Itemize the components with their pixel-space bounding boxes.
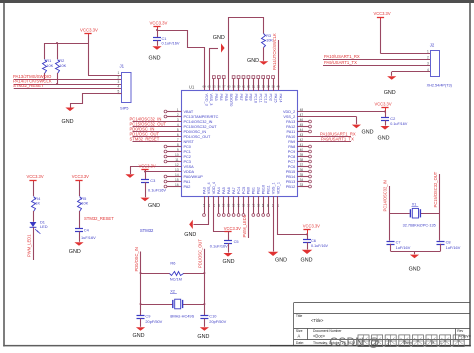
ground xyxy=(152,46,161,50)
pin 21 PA5 xyxy=(223,196,225,213)
svg-text:VCC3.3V: VCC3.3V xyxy=(80,27,98,32)
svg-text:53: 53 xyxy=(262,85,266,89)
pin 57 PB5 (NC) xyxy=(223,79,225,91)
svg-text:PA0/WKUP: PA0/WKUP xyxy=(184,175,204,179)
svg-text:GND: GND xyxy=(247,58,259,64)
pin 44 PA11 (NC) xyxy=(297,131,308,133)
svg-text:<Doc>: <Doc> xyxy=(313,334,326,339)
svg-text:GND: GND xyxy=(148,203,160,209)
svg-text:STM32_RESET: STM32_RESET xyxy=(13,83,44,88)
svg-text:Rev: Rev xyxy=(457,329,463,333)
pin 30 PB11 xyxy=(268,196,270,213)
wire xyxy=(385,120,387,125)
svg-text:10K: 10K xyxy=(81,201,88,206)
svg-text:35: 35 xyxy=(300,173,304,177)
svg-text:VDDA: VDDA xyxy=(184,170,195,174)
svg-text:PD2: PD2 xyxy=(268,94,272,101)
svg-text:PC2: PC2 xyxy=(184,155,191,159)
svg-text:VDD_1: VDD_1 xyxy=(276,182,280,194)
resistor R3 xyxy=(262,34,266,48)
svg-text:PB14: PB14 xyxy=(286,175,295,179)
pin 54 PD2 (NC) xyxy=(268,79,270,91)
svg-text:0.1uF/16V: 0.1uF/16V xyxy=(311,244,329,248)
pin 52 PC11 (NC) xyxy=(258,79,260,91)
svg-text:Title: Title xyxy=(296,314,303,318)
svg-text:Size: Size xyxy=(296,329,303,333)
svg-text:8MHz-HC49S: 8MHz-HC49S xyxy=(170,313,194,318)
svg-text:50: 50 xyxy=(272,85,276,89)
wire VDD_1 xyxy=(278,204,308,235)
ground xyxy=(189,220,193,229)
wire VSS_1 xyxy=(273,204,275,252)
svg-text:56: 56 xyxy=(217,85,221,89)
svg-text:0.1uF/16V: 0.1uF/16V xyxy=(210,243,228,248)
svg-text:52: 52 xyxy=(257,85,261,89)
pin 55 PB3 (NC) xyxy=(213,79,215,91)
capacitor C9 xyxy=(137,315,145,317)
pin 45 PA12 (NC) xyxy=(297,126,308,128)
wire xyxy=(414,251,416,254)
crystal X1 xyxy=(389,213,410,215)
svg-text:PB3: PB3 xyxy=(214,94,218,101)
capacitor C1 xyxy=(153,37,161,39)
svg-text:GND: GND xyxy=(409,267,421,273)
wire xyxy=(33,182,35,196)
svg-text:VCC3.3V: VCC3.3V xyxy=(374,11,391,16)
svg-text:C3: C3 xyxy=(150,178,155,183)
svg-text:A: A xyxy=(298,334,301,339)
net STM32_RESET xyxy=(14,88,122,90)
svg-text:<Rev>: <Rev> xyxy=(459,334,472,339)
svg-text:16: 16 xyxy=(175,183,179,187)
wire xyxy=(79,232,81,242)
ground xyxy=(136,327,145,331)
svg-text:58: 58 xyxy=(232,85,236,89)
pin 41 PA8 (NC) xyxy=(297,146,308,148)
svg-text:PA7: PA7 xyxy=(232,187,236,194)
ground xyxy=(380,126,389,130)
svg-text:PC4: PC4 xyxy=(237,187,241,194)
svg-text:37: 37 xyxy=(300,163,304,167)
svg-text:PA9/USART1_TX: PA9/USART1_TX xyxy=(321,136,354,141)
svg-text:GND: GND xyxy=(362,129,374,135)
wire xyxy=(79,182,81,196)
pin 8 PC0 (NC) xyxy=(167,146,182,148)
svg-text:PA10/USART1_RX: PA10/USART1_RX xyxy=(324,54,360,59)
wire xyxy=(157,40,159,45)
svg-text:PA14/JTCK/SWCLK: PA14/JTCK/SWCLK xyxy=(272,33,277,70)
pin 40 PC9 (NC) xyxy=(297,151,308,153)
svg-text:NRST: NRST xyxy=(184,140,195,144)
svg-text:0.1uF/16V: 0.1uF/16V xyxy=(162,41,180,46)
svg-text:PA8: PA8 xyxy=(288,145,295,149)
svg-text:C6: C6 xyxy=(311,238,316,243)
svg-text:10: 10 xyxy=(175,153,179,157)
svg-text:61: 61 xyxy=(242,85,246,89)
svg-text:39: 39 xyxy=(300,153,304,157)
svg-text:38: 38 xyxy=(300,158,304,162)
svg-text:PA13: PA13 xyxy=(286,120,295,124)
svg-text:32.768KHZ/PC-135: 32.768KHZ/PC-135 xyxy=(403,224,436,228)
net PA9/USART1_TX (J2) xyxy=(323,65,431,67)
svg-text:PA12: PA12 xyxy=(286,125,295,129)
svg-text:STM32: STM32 xyxy=(140,228,154,233)
svg-text:PD0/OSC_IN: PD0/OSC_IN xyxy=(184,130,207,134)
svg-text:GND: GND xyxy=(133,333,145,339)
svg-text:17: 17 xyxy=(202,204,206,208)
svg-text:9: 9 xyxy=(177,148,179,152)
pin 16 PA2 (NC) xyxy=(167,186,182,188)
pin 61 PB8 (NC) xyxy=(243,79,245,91)
capacitor C7 xyxy=(387,241,395,243)
svg-text:0.1uF/16V: 0.1uF/16V xyxy=(390,122,408,126)
svg-text:2: 2 xyxy=(427,56,429,60)
svg-text:PB15: PB15 xyxy=(286,170,295,174)
ground xyxy=(352,125,361,129)
svg-text:PA14: PA14 xyxy=(278,94,282,103)
wire xyxy=(390,244,392,251)
svg-text:STM32_RESET: STM32_RESET xyxy=(130,136,160,141)
svg-text:PC14/OSC32_IN: PC14/OSC32_IN xyxy=(382,180,387,211)
svg-text:PC0: PC0 xyxy=(184,145,191,149)
svg-text:Document Number: Document Number xyxy=(313,329,342,333)
svg-text:PA10: PA10 xyxy=(286,135,295,139)
ground xyxy=(223,253,232,257)
svg-text:<Title>: <Title> xyxy=(311,318,324,323)
svg-text:1uF/16V: 1uF/16V xyxy=(396,245,411,250)
svg-text:20pF/50V: 20pF/50V xyxy=(209,319,226,324)
svg-text:PD0/OSC_IN: PD0/OSC_IN xyxy=(134,247,139,271)
LED D1 xyxy=(30,222,37,227)
capacitor C8 xyxy=(437,241,445,243)
svg-text:GND: GND xyxy=(384,90,396,96)
svg-text:PD1/OSC_OUT: PD1/OSC_OUT xyxy=(198,239,203,268)
pin 38 PC7 (NC) xyxy=(297,161,308,163)
net PA9/USART1_TX (pin 42) xyxy=(297,141,351,143)
svg-text:41: 41 xyxy=(300,143,304,147)
svg-text:SIP5: SIP5 xyxy=(120,105,128,110)
svg-text:LED: LED xyxy=(40,224,48,229)
svg-text:PB9: PB9 xyxy=(249,94,253,101)
net PD0/OSC_IN xyxy=(133,131,182,133)
svg-text:VCC3.3V: VCC3.3V xyxy=(139,163,156,168)
svg-text:23: 23 xyxy=(232,204,236,208)
svg-text:63: 63 xyxy=(207,85,211,89)
svg-text:VSS_2: VSS_2 xyxy=(283,115,295,119)
svg-text:GND: GND xyxy=(378,135,390,141)
pin 11 PC3 (NC) xyxy=(167,161,182,163)
svg-text:2: 2 xyxy=(118,76,120,80)
wire xyxy=(392,71,431,73)
wire xyxy=(79,211,81,229)
svg-text:1: 1 xyxy=(177,108,179,112)
pin 20 PA4 xyxy=(218,196,220,213)
svg-text:1uF/16V: 1uF/16V xyxy=(446,245,461,250)
svg-text:PC14/OSC32_IN: PC14/OSC32_IN xyxy=(184,120,213,124)
svg-text:PWM_LED1: PWM_LED1 xyxy=(242,214,247,237)
wire xyxy=(44,73,46,80)
svg-text:PB11: PB11 xyxy=(266,185,270,194)
svg-text:R6: R6 xyxy=(170,260,175,265)
pin 22 PA6 xyxy=(228,196,230,213)
svg-text:C5: C5 xyxy=(234,239,239,244)
svg-text:10K: 10K xyxy=(59,63,66,68)
wire xyxy=(380,20,382,54)
svg-text:PC12: PC12 xyxy=(263,94,267,104)
svg-text:C4: C4 xyxy=(84,227,90,232)
svg-text:Date:: Date: xyxy=(296,341,304,345)
svg-text:J2: J2 xyxy=(430,42,435,47)
net PD0/OSC_IN (xtal) xyxy=(140,252,142,316)
svg-text:VCC3.3V: VCC3.3V xyxy=(150,20,168,25)
svg-text:VDD_2: VDD_2 xyxy=(283,110,295,114)
svg-text:VSS_4: VSS_4 xyxy=(207,182,211,194)
svg-text:51: 51 xyxy=(252,85,256,89)
svg-text:VCC3.3V: VCC3.3V xyxy=(375,101,392,106)
svg-text:64: 64 xyxy=(203,85,207,89)
svg-text:1K: 1K xyxy=(35,201,40,206)
capacitor C5 xyxy=(228,231,230,240)
svg-text:34: 34 xyxy=(300,178,304,182)
svg-text:0.1uF/16V: 0.1uF/16V xyxy=(148,187,166,192)
svg-text:15: 15 xyxy=(175,178,179,182)
pin 59 PB7 (NC) xyxy=(238,79,240,91)
net PA10/USART1_RX (pin 43) xyxy=(297,136,351,138)
svg-text:GND: GND xyxy=(184,232,196,238)
pin 35 PB14 (NC) xyxy=(297,176,308,178)
pin 15 PA1 (NC) xyxy=(167,181,182,183)
svg-text:46: 46 xyxy=(300,118,304,122)
svg-text:62: 62 xyxy=(247,85,251,89)
pin 53 PC12 (NC) xyxy=(263,79,265,91)
ground xyxy=(410,255,419,259)
pin 58 PB6 (NC) xyxy=(233,79,235,91)
capacitor C6 xyxy=(307,234,309,239)
svg-text:PA11: PA11 xyxy=(286,130,295,134)
svg-text:VSS_3: VSS_3 xyxy=(209,94,213,106)
svg-text:PC13/TAMPER/RTC: PC13/TAMPER/RTC xyxy=(184,115,219,119)
svg-text:57: 57 xyxy=(222,85,226,89)
svg-text:33: 33 xyxy=(300,183,304,187)
pin 32 VDD_1 xyxy=(277,196,279,203)
svg-text:PC1: PC1 xyxy=(184,150,191,154)
svg-text:60: 60 xyxy=(227,85,231,89)
pin 28 PB2 xyxy=(258,196,260,213)
resistor R6 xyxy=(141,273,170,275)
resistor R5 xyxy=(78,197,82,212)
svg-text:PC10: PC10 xyxy=(254,94,258,104)
pin 50 PA15 (NC) xyxy=(273,79,275,91)
wire xyxy=(145,182,147,197)
net PA14/JTCK/SWCLK xyxy=(14,84,122,86)
resistor R4 xyxy=(32,197,36,212)
wire xyxy=(307,242,309,249)
svg-text:PB1: PB1 xyxy=(252,187,256,194)
ground xyxy=(200,327,209,331)
svg-text:STM32_RESET: STM32_RESET xyxy=(84,216,114,221)
svg-text:GND: GND xyxy=(149,56,161,62)
svg-text:1uF/16V: 1uF/16V xyxy=(81,235,96,240)
svg-text:3: 3 xyxy=(118,80,120,84)
ground xyxy=(74,242,83,246)
pin 23 PA7 xyxy=(233,196,235,213)
wire BOOT0 xyxy=(229,18,264,93)
svg-text:PB13: PB13 xyxy=(286,180,295,184)
svg-text:27: 27 xyxy=(251,204,255,208)
svg-text:J1: J1 xyxy=(120,64,125,69)
net PC14/OSC32_IN (xtal) xyxy=(389,186,391,241)
ground xyxy=(65,108,74,112)
svg-text:PA15: PA15 xyxy=(273,94,277,103)
net PWM_LED1 (PB0) xyxy=(248,204,250,238)
pin 56 PB4 (NC) xyxy=(218,79,220,91)
svg-text:PB7: PB7 xyxy=(239,94,243,101)
wire VSS_2 xyxy=(297,116,356,118)
svg-text:VCC3.3V: VCC3.3V xyxy=(303,223,320,228)
svg-text:PB8: PB8 xyxy=(244,94,248,101)
svg-text:XH2.54/4P(T3): XH2.54/4P(T3) xyxy=(427,83,453,87)
svg-text:44: 44 xyxy=(300,128,304,132)
svg-text:29: 29 xyxy=(261,204,265,208)
svg-text:PA5: PA5 xyxy=(222,187,226,194)
svg-text:49: 49 xyxy=(277,85,281,89)
net PD1/OSC_OUT xyxy=(133,136,182,138)
connector J1 xyxy=(122,73,132,103)
pin 37 PC6 (NC) xyxy=(297,166,308,168)
svg-text:11: 11 xyxy=(175,158,179,162)
wire xyxy=(157,29,159,38)
svg-text:54: 54 xyxy=(267,85,271,89)
svg-text:X2: X2 xyxy=(170,289,175,294)
svg-text:BOOT0: BOOT0 xyxy=(229,94,233,107)
wire xyxy=(209,48,218,50)
net PA13/JTMS/SWDIO xyxy=(14,79,122,81)
svg-text:14: 14 xyxy=(175,173,179,177)
svg-text:PC11: PC11 xyxy=(259,94,263,103)
wire VSS_4 xyxy=(194,204,209,225)
pin 19 VDD_4 xyxy=(213,196,215,203)
svg-text:GND: GND xyxy=(275,257,287,263)
pin 51 PC10 (NC) xyxy=(253,79,255,91)
wire xyxy=(88,75,122,77)
svg-text:PB5: PB5 xyxy=(224,94,228,101)
svg-text:55: 55 xyxy=(212,85,216,89)
svg-text:VCC3.3V: VCC3.3V xyxy=(224,226,241,231)
net PA10/USART1_RX (J2) xyxy=(323,59,431,61)
svg-text:GND: GND xyxy=(197,334,209,340)
ground xyxy=(140,198,149,202)
pin 9 PC1 (NC) xyxy=(167,151,182,153)
ground xyxy=(268,252,279,256)
svg-text:PC7: PC7 xyxy=(288,160,295,164)
svg-text:PA6: PA6 xyxy=(227,187,231,194)
svg-text:VDD_4: VDD_4 xyxy=(212,182,216,194)
pin 27 PB1 xyxy=(253,196,255,213)
svg-text:VCC3.3V: VCC3.3V xyxy=(72,174,89,179)
svg-text:VSSA: VSSA xyxy=(184,165,195,169)
svg-text:PC5: PC5 xyxy=(242,187,246,194)
pin 29 PB10 xyxy=(263,196,265,213)
svg-text:1: 1 xyxy=(118,71,120,75)
wire xyxy=(88,35,90,75)
svg-text:2: 2 xyxy=(177,113,179,117)
ground xyxy=(387,76,396,80)
svg-text:VSS_1: VSS_1 xyxy=(271,182,275,194)
svg-text:PA9/USART1_TX: PA9/USART1_TX xyxy=(324,60,357,65)
svg-text:PC6: PC6 xyxy=(288,165,295,169)
svg-text:4: 4 xyxy=(427,68,429,72)
net PD1/OSC_OUT (xtal) xyxy=(204,249,206,316)
resistor R2 xyxy=(56,60,60,74)
svg-text:36: 36 xyxy=(300,168,304,172)
pin 24 PC4 xyxy=(238,196,240,213)
net STM32_RESET (NRST) xyxy=(133,141,182,143)
pin 31 VSS_1 xyxy=(273,196,275,203)
pin 62 PB9 (NC) xyxy=(248,79,250,91)
svg-text:PC9: PC9 xyxy=(288,150,295,154)
svg-text:VBAT: VBAT xyxy=(184,110,194,114)
svg-text:21: 21 xyxy=(222,204,226,208)
svg-text:PA9: PA9 xyxy=(288,140,295,144)
svg-text:PB2: PB2 xyxy=(257,187,261,194)
pin 2 PC13/TAMPER/RTC (NC) xyxy=(167,116,182,118)
svg-text:30: 30 xyxy=(266,204,270,208)
capacitor C2 xyxy=(385,112,387,118)
wire xyxy=(263,48,265,61)
pin 18 VSS_4 xyxy=(208,196,210,203)
wire xyxy=(204,319,206,327)
wire xyxy=(44,43,46,59)
ground xyxy=(125,174,134,178)
ground xyxy=(302,250,313,254)
svg-text:GND: GND xyxy=(69,249,81,255)
ground xyxy=(259,61,268,65)
svg-text:VCC3.3V: VCC3.3V xyxy=(27,174,44,179)
svg-text:PB6: PB6 xyxy=(234,94,238,101)
svg-text:PWM_LED1: PWM_LED1 xyxy=(26,234,31,257)
wire xyxy=(118,93,122,95)
svg-text:20pF/50V: 20pF/50V xyxy=(145,319,162,324)
svg-text:40: 40 xyxy=(300,148,304,152)
svg-text:59: 59 xyxy=(237,85,241,89)
pin 1 VBAT (NC) xyxy=(167,111,182,113)
net PC15/OSC32_OUT xyxy=(133,126,182,128)
resistor R1 xyxy=(43,60,47,74)
wire xyxy=(33,211,35,222)
svg-text:GND: GND xyxy=(62,119,74,125)
pin 26 PB0 xyxy=(248,196,250,203)
svg-text:PA4: PA4 xyxy=(217,187,221,194)
pin 33 PB12 (NC) xyxy=(297,186,308,188)
wire VDDA xyxy=(145,171,182,173)
svg-text:PB0: PB0 xyxy=(247,187,251,194)
svg-text:GND: GND xyxy=(213,35,225,41)
svg-text:PB10: PB10 xyxy=(261,185,265,194)
pin 17 PA3 xyxy=(204,196,206,213)
svg-text:45: 45 xyxy=(300,123,304,127)
svg-text:20: 20 xyxy=(217,204,221,208)
pin 14 PA0/WKUP (NC) xyxy=(167,176,182,178)
svg-text:4: 4 xyxy=(118,85,120,89)
wire VDD_4 xyxy=(214,204,229,232)
svg-text:PC15/OSC32_OUT: PC15/OSC32_OUT xyxy=(184,125,218,129)
net PA14/JTCK/SWCLK (top) xyxy=(278,40,280,93)
svg-text:GND: GND xyxy=(223,259,235,265)
net PC14/OSC32_IN xyxy=(133,121,182,123)
wire VDD_3 xyxy=(158,31,205,93)
svg-text:PA2: PA2 xyxy=(184,185,191,189)
svg-text:GND: GND xyxy=(301,257,313,263)
